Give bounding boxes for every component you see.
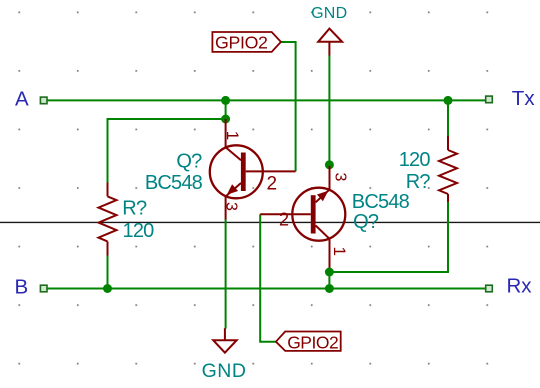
svg-text:Tx: Tx bbox=[512, 87, 536, 110]
svg-text:B: B bbox=[15, 275, 29, 298]
svg-text:R?: R? bbox=[122, 198, 147, 220]
svg-text:3: 3 bbox=[332, 173, 349, 182]
svg-text:1: 1 bbox=[330, 247, 349, 256]
svg-text:2: 2 bbox=[267, 173, 278, 194]
svg-text:A: A bbox=[15, 88, 29, 111]
svg-text:GND: GND bbox=[311, 5, 347, 22]
svg-text:120: 120 bbox=[399, 149, 431, 171]
svg-text:GPIO2: GPIO2 bbox=[215, 32, 268, 52]
svg-text:R?: R? bbox=[406, 171, 431, 193]
svg-text:3: 3 bbox=[223, 202, 240, 211]
svg-text:Q?: Q? bbox=[176, 150, 202, 172]
svg-text:GND: GND bbox=[202, 360, 247, 382]
svg-text:Rx: Rx bbox=[507, 275, 533, 298]
svg-text:1: 1 bbox=[223, 131, 242, 140]
svg-text:BC548: BC548 bbox=[145, 172, 203, 194]
svg-text:120: 120 bbox=[123, 220, 155, 242]
svg-text:GPIO2: GPIO2 bbox=[287, 332, 338, 352]
svg-text:Q?: Q? bbox=[353, 211, 379, 233]
svg-text:BC548: BC548 bbox=[352, 191, 410, 213]
svg-text:2: 2 bbox=[279, 209, 289, 229]
